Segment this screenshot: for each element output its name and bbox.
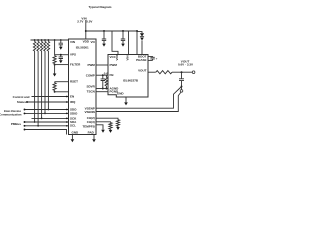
capacitor C3 xyxy=(103,31,105,39)
svg-text:GND: GND xyxy=(117,92,125,96)
wire FILTER to U1 xyxy=(55,64,69,66)
wire FILTER down to ground xyxy=(54,65,56,74)
wire top rail y=31 xyxy=(86,30,137,32)
wire row 1 xyxy=(32,96,69,98)
svg-text:GND: GND xyxy=(72,131,80,135)
wire FB U1 to U2 xyxy=(96,74,108,76)
node row 1 pin xyxy=(66,96,68,98)
svg-text:RSET: RSET xyxy=(70,80,78,84)
terminal VOUT xyxy=(192,71,195,74)
svg-text:Communication: Communication xyxy=(0,113,22,117)
wire R4 column down xyxy=(44,51,46,113)
svg-text:COMP: COMP xyxy=(86,74,95,78)
wire PWM U1 to U2 xyxy=(96,64,108,66)
node row 8 xyxy=(24,129,26,131)
node VPS drop xyxy=(54,39,56,41)
wire drop to U2 VCC pin xyxy=(112,31,118,55)
node FB xyxy=(102,74,104,76)
svg-text:IRQ: IRQ xyxy=(70,100,76,104)
svg-text:PAD: PAD xyxy=(88,131,95,135)
svg-text:PHASE: PHASE xyxy=(136,58,146,62)
wire row 3 xyxy=(25,109,69,111)
node row 7 pin xyxy=(66,125,68,127)
svg-text:PMBus: PMBus xyxy=(11,122,21,126)
wire R1 column down xyxy=(34,51,36,122)
svg-text:FILTER: FILTER xyxy=(70,63,81,67)
ground below R8 xyxy=(116,127,120,130)
svg-text:VDD: VDD xyxy=(115,53,119,60)
svg-text:ISL96227B: ISL96227B xyxy=(123,79,139,83)
resistor R4 xyxy=(44,40,47,51)
svg-text:VPS: VPS xyxy=(70,53,76,57)
svg-text:5.5V: 5.5V xyxy=(86,20,92,24)
svg-text:EN: EN xyxy=(70,95,74,99)
wire VSENN sense (U1 to output) xyxy=(96,92,181,111)
wire drop to U2 VIN pin xyxy=(128,31,130,55)
node R1 join xyxy=(34,121,36,123)
node row 3 xyxy=(24,109,26,111)
wire AGND U1 to U2 xyxy=(96,88,108,90)
wire L1 to VOUT node xyxy=(172,71,192,73)
svg-text:2.7V: 2.7V xyxy=(77,20,83,24)
supply VIN label xyxy=(77,17,92,24)
svg-text:SDVR: SDVR xyxy=(86,85,95,89)
inductor L1 xyxy=(156,71,172,74)
wire PGND U1 to U2 xyxy=(96,91,108,93)
wire to gnd terminal xyxy=(181,87,183,90)
resistor R3 xyxy=(40,40,43,51)
node R2 top xyxy=(37,39,39,41)
node cap C4 top xyxy=(122,30,124,32)
node R7 bottom xyxy=(105,88,107,90)
wire RSET row xyxy=(55,81,69,83)
node R2 join xyxy=(37,125,39,127)
wire CH3 pin to R9 xyxy=(96,121,111,124)
wire row 4 xyxy=(25,112,69,114)
svg-text:PWM: PWM xyxy=(87,63,95,67)
svg-text:VIN: VIN xyxy=(70,40,75,44)
svg-text:Typical Diagram: Typical Diagram xyxy=(89,5,112,9)
wire R3 column down xyxy=(41,51,43,118)
wire PHASE pin to cap bottom xyxy=(148,59,153,61)
node FILTER xyxy=(54,64,56,66)
resistor R5 xyxy=(47,40,50,51)
resistor R8 xyxy=(116,120,119,127)
IC U1 ISL58301 xyxy=(69,39,97,135)
node row 6 xyxy=(24,121,26,123)
resistor R9 xyxy=(109,123,112,130)
wire row 5 xyxy=(32,117,69,119)
wire TEMPFB pin down xyxy=(96,125,103,130)
node VOUT xyxy=(181,71,183,73)
node row 3 pin xyxy=(66,109,68,111)
node sense join xyxy=(181,86,183,88)
svg-text:VO: VO xyxy=(90,40,95,44)
capacitor C5 (comp) xyxy=(102,75,104,79)
resistor R6 (RSET) xyxy=(53,82,56,91)
node row 7 xyxy=(24,125,26,127)
svg-text:VDD: VDD xyxy=(83,39,90,43)
svg-text:SCL: SCL xyxy=(70,123,76,127)
node cap C3 top xyxy=(103,30,105,32)
node row 4 xyxy=(24,112,26,114)
node R5 join xyxy=(48,109,50,111)
capacitor C1 (VIN decoupling) xyxy=(60,40,62,43)
wire R5 column down xyxy=(47,51,49,110)
ground below TEMPFB xyxy=(101,130,105,133)
node supply/top-rail junction xyxy=(85,30,87,32)
wire row 2 xyxy=(27,101,69,103)
resistor R1 xyxy=(33,40,36,51)
wire VPS to U1 xyxy=(55,54,69,56)
node row 4 pin xyxy=(66,113,68,115)
wire supply down to U1 VDD xyxy=(85,20,87,39)
ground below C3 xyxy=(102,44,106,47)
capacitor C4 xyxy=(122,31,124,39)
ground below R9 xyxy=(109,130,113,133)
node C5 bottom xyxy=(102,88,104,90)
node row 6 pin xyxy=(66,121,68,123)
svg-text:Control and: Control and xyxy=(13,95,30,99)
ground below C4 xyxy=(121,44,125,47)
node row 2 xyxy=(26,101,28,103)
wire row 6 xyxy=(25,121,69,123)
ground below C1 xyxy=(59,47,63,50)
terminal GND sense xyxy=(180,90,183,93)
wire R2 column down xyxy=(37,51,39,126)
IC U2 ISL96227B xyxy=(108,55,148,98)
svg-text:SDIO: SDIO xyxy=(70,112,78,116)
node row 2 pin xyxy=(66,101,68,103)
svg-text:VOUT: VOUT xyxy=(138,69,147,73)
node R5 top xyxy=(48,39,50,41)
svg-text:0.6V - 3.3V: 0.6V - 3.3V xyxy=(178,62,193,66)
node rail corner xyxy=(136,30,138,32)
node R4 top xyxy=(44,39,46,41)
wire row 7 xyxy=(25,125,69,127)
node R1 top xyxy=(34,39,36,41)
wire rail corner down to U2 xyxy=(136,31,138,55)
svg-text:TSCN: TSCN xyxy=(87,89,95,93)
capacitor C6 (bootstrap) xyxy=(150,57,154,59)
wire stub to boot diode xyxy=(137,32,142,34)
svg-text:TEMPFB: TEMPFB xyxy=(82,124,95,128)
wire CH2 pin to R8 xyxy=(96,118,118,120)
node RSET bottom xyxy=(54,91,56,93)
wire LX pin to inductor xyxy=(148,71,156,73)
node R4 join xyxy=(44,113,46,115)
resistor R2 xyxy=(37,40,40,51)
ground below U1 left xyxy=(71,135,73,140)
capacitor C2 (VPS filter) xyxy=(60,55,62,57)
node C2 top xyxy=(60,54,62,56)
wire row 8 xyxy=(25,130,67,135)
wire VSENP sense (U1 to output) xyxy=(96,87,182,109)
svg-text:VIN: VIN xyxy=(126,55,130,60)
node row 5 pin xyxy=(66,118,68,120)
wire VPS column xyxy=(54,40,56,56)
ground below FILTER xyxy=(53,74,57,77)
wire resistor-bank top rail y=40 xyxy=(31,39,69,41)
ground below U2 xyxy=(125,97,127,102)
node C1 top xyxy=(60,39,62,41)
svg-text:ISL58301: ISL58301 xyxy=(76,46,89,50)
svg-text:+: + xyxy=(156,56,158,60)
node R3 top xyxy=(41,39,43,41)
diode D1 (bootstrap) xyxy=(140,33,144,36)
resistor R7 (comp) xyxy=(105,75,108,88)
ground below U1 right xyxy=(93,135,95,140)
resistor R5 (VPS filter) xyxy=(53,56,56,64)
capacitor C7 (output) xyxy=(181,72,183,79)
svg-text:CH(3): CH(3) xyxy=(87,120,95,124)
ground below C2 xyxy=(59,60,63,63)
svg-text:Status: Status xyxy=(17,100,27,104)
node R3 join xyxy=(41,118,43,120)
wire RSET return to U1 xyxy=(55,91,69,93)
svg-text:PWM: PWM xyxy=(110,63,118,67)
wire BOOT pin to cap xyxy=(148,56,153,59)
svg-text:VSENN: VSENN xyxy=(84,110,94,114)
